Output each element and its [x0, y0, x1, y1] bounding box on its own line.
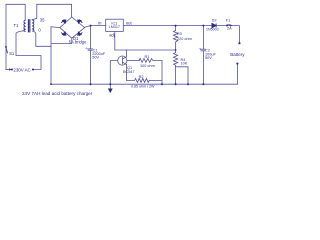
svg-text:50V: 50V: [205, 56, 212, 60]
svg-text:220 ohm: 220 ohm: [177, 37, 192, 41]
svg-text:F1: F1: [226, 18, 230, 22]
svg-text:24V 7AH lead acid battery char: 24V 7AH lead acid battery charger: [22, 91, 93, 96]
svg-text:+: +: [85, 47, 87, 51]
svg-text:T1: T1: [14, 23, 20, 28]
svg-text:adj: adj: [109, 33, 115, 38]
svg-text:BC547: BC547: [123, 70, 135, 74]
svg-text:10K: 10K: [181, 62, 188, 66]
svg-text:50V: 50V: [92, 56, 99, 60]
svg-text:R1: R1: [145, 55, 150, 59]
svg-text:5A bridge: 5A bridge: [69, 40, 87, 45]
svg-text:R3: R3: [177, 32, 182, 36]
svg-text:Battery: Battery: [230, 52, 245, 57]
svg-text:100 ohm: 100 ohm: [140, 64, 155, 68]
svg-text:+: +: [199, 47, 201, 51]
svg-text:0.85 ohm / 2W: 0.85 ohm / 2W: [131, 85, 155, 89]
svg-text:D2: D2: [212, 19, 217, 23]
svg-text:2A: 2A: [227, 27, 232, 31]
svg-text:35: 35: [40, 18, 45, 23]
svg-text:S1: S1: [9, 51, 15, 56]
svg-text:LM317: LM317: [109, 25, 120, 29]
svg-text:R2: R2: [139, 75, 144, 79]
svg-text:0: 0: [38, 27, 41, 32]
svg-text:230V AC: 230V AC: [13, 68, 30, 73]
svg-text:in: in: [98, 21, 102, 26]
svg-text:out: out: [126, 21, 133, 26]
svg-text:1N5003: 1N5003: [206, 27, 219, 31]
